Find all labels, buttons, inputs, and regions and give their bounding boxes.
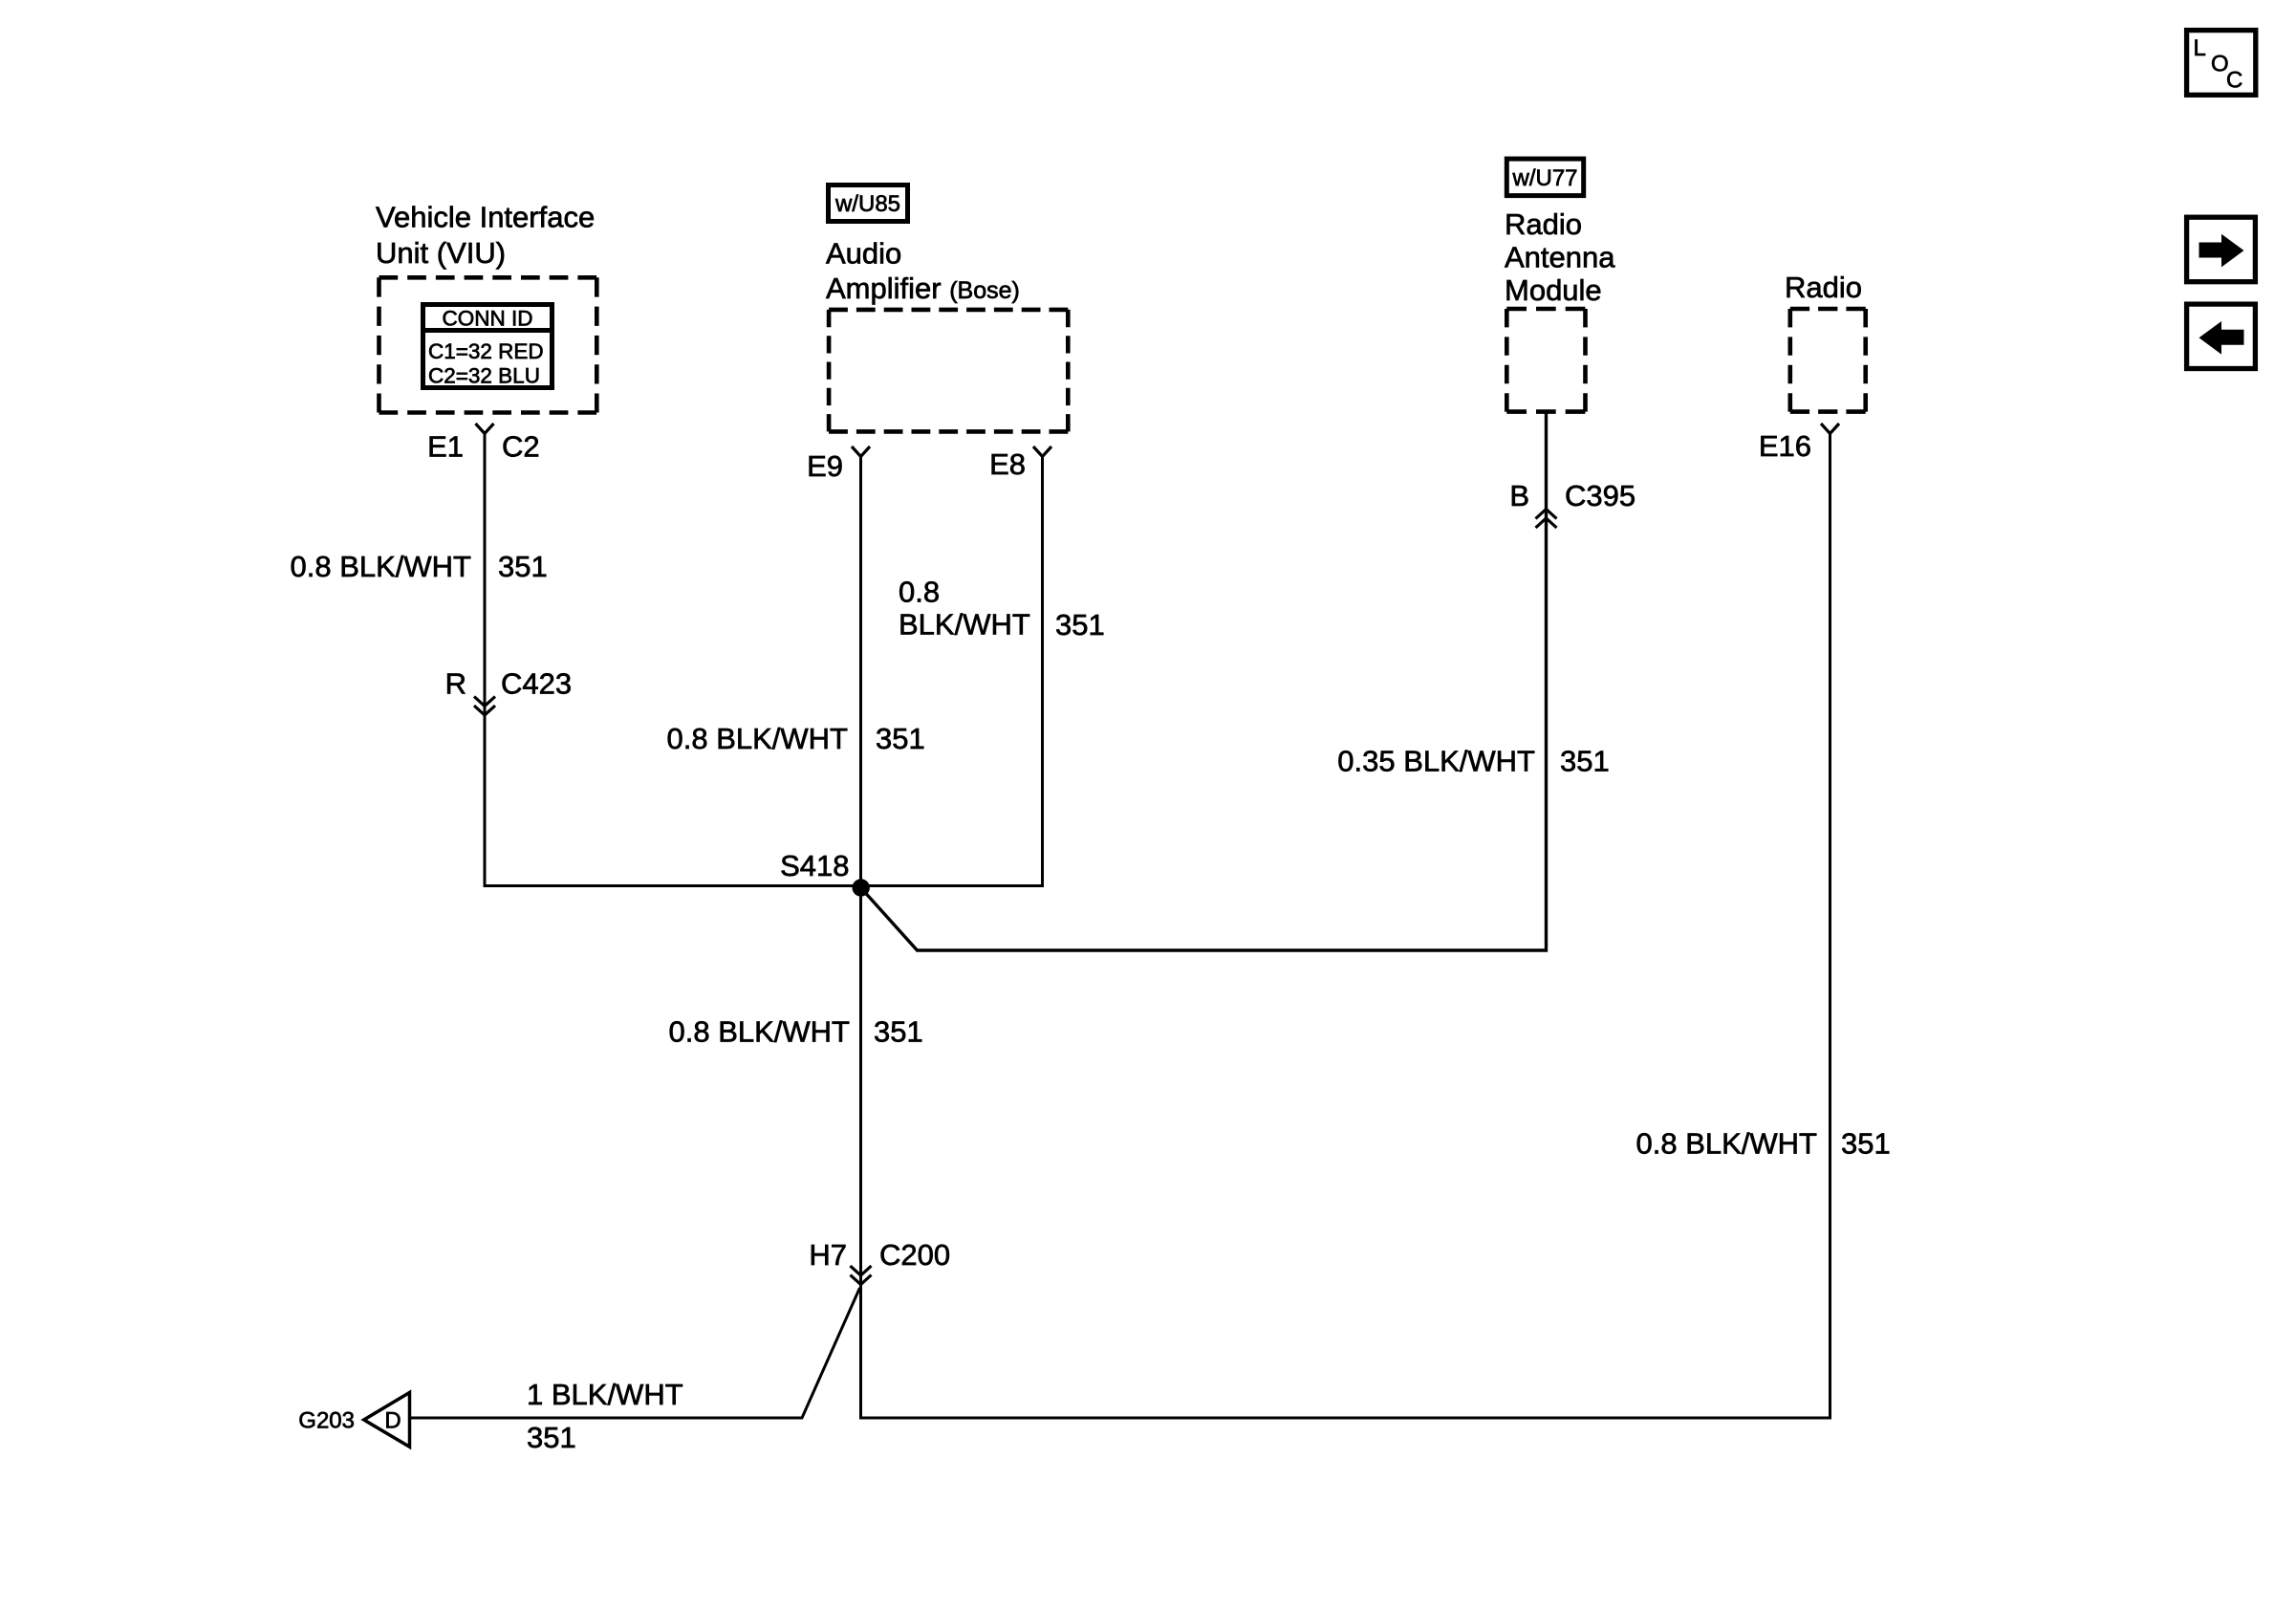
svg-text:E8: E8 <box>989 447 1026 481</box>
svg-text:D: D <box>384 1408 401 1434</box>
svg-text:0.35 BLK/WHT: 0.35 BLK/WHT <box>1337 745 1535 778</box>
svg-text:H7: H7 <box>809 1238 847 1272</box>
svg-text:351: 351 <box>527 1421 576 1454</box>
svg-text:E9: E9 <box>807 449 843 483</box>
svg-text:0.8 BLK/WHT: 0.8 BLK/WHT <box>1636 1127 1818 1161</box>
svg-text:C: C <box>2226 68 2242 94</box>
svg-text:C2: C2 <box>502 430 540 464</box>
svg-text:S418: S418 <box>780 849 849 882</box>
svg-text:Radio: Radio <box>1505 207 1582 241</box>
svg-text:E16: E16 <box>1759 429 1811 463</box>
svg-text:Module: Module <box>1505 273 1602 307</box>
svg-text:Audio: Audio <box>826 236 901 270</box>
svg-text:R: R <box>445 667 466 701</box>
svg-text:351: 351 <box>876 722 925 755</box>
svg-text:0.8 BLK/WHT: 0.8 BLK/WHT <box>669 1014 851 1048</box>
svg-text:C423: C423 <box>501 667 572 701</box>
svg-text:w/U77: w/U77 <box>1511 165 1577 191</box>
svg-text:351: 351 <box>1841 1127 1891 1161</box>
svg-text:351: 351 <box>498 550 548 583</box>
svg-text:0.8 BLK/WHT: 0.8 BLK/WHT <box>291 550 472 583</box>
svg-text:G203: G203 <box>298 1408 355 1434</box>
svg-text:L: L <box>2194 35 2206 61</box>
svg-text:0.8: 0.8 <box>899 576 940 609</box>
svg-text:C1=32 RED: C1=32 RED <box>428 339 544 363</box>
svg-text:Antenna: Antenna <box>1505 241 1615 274</box>
svg-text:C395: C395 <box>1565 479 1635 512</box>
svg-text:w/U85: w/U85 <box>834 191 900 217</box>
svg-text:0.8 BLK/WHT: 0.8 BLK/WHT <box>667 722 849 755</box>
svg-text:Vehicle Interface: Vehicle Interface <box>376 200 595 233</box>
svg-text:E1: E1 <box>427 430 464 464</box>
svg-text:Amplifier (Bose): Amplifier (Bose) <box>826 272 1020 305</box>
svg-text:Radio: Radio <box>1785 271 1862 304</box>
svg-text:1 BLK/WHT: 1 BLK/WHT <box>527 1378 683 1411</box>
svg-text:351: 351 <box>1560 745 1610 778</box>
svg-text:B: B <box>1509 479 1529 512</box>
svg-text:351: 351 <box>874 1014 923 1048</box>
svg-text:CONN ID: CONN ID <box>443 307 533 331</box>
svg-text:BLK/WHT: BLK/WHT <box>899 608 1030 642</box>
svg-text:Unit (VIU): Unit (VIU) <box>376 236 506 270</box>
svg-text:351: 351 <box>1055 608 1105 642</box>
svg-text:C2=32 BLU: C2=32 BLU <box>428 364 540 388</box>
svg-text:C200: C200 <box>879 1238 950 1272</box>
